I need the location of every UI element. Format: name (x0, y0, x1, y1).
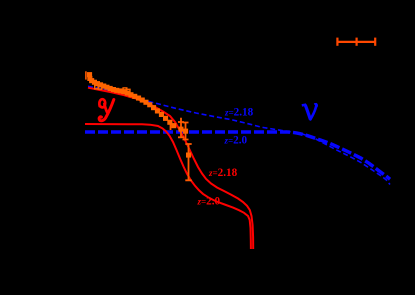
label: nu (blue) (302, 104, 317, 119)
data points: open orange squares (95, 85, 130, 93)
data error bar first point (85, 71, 87, 79)
svg-text:z=2.0: z=2.0 (224, 135, 248, 147)
svg-text:z=2.18: z=2.18 (224, 107, 254, 119)
label: gamma (red) (99, 99, 114, 121)
data points: orange squares series (87, 72, 191, 158)
svg-text:z=2.0: z=2.0 (197, 196, 221, 208)
svg-text:z=2.18: z=2.18 (208, 167, 238, 179)
curve: thin blue dashed z=2.18 scaling line (88, 86, 390, 184)
data error bars late cluster (171, 118, 192, 181)
legend: orange horizontal error bar (337, 38, 375, 46)
curve: thick blue dashed z=2.0 scaling line (85, 132, 390, 179)
curve: red solid z=2.0 (flat then plunges) (85, 124, 251, 249)
curve: red solid z=2.18 (follows data, plunges) (88, 88, 253, 249)
